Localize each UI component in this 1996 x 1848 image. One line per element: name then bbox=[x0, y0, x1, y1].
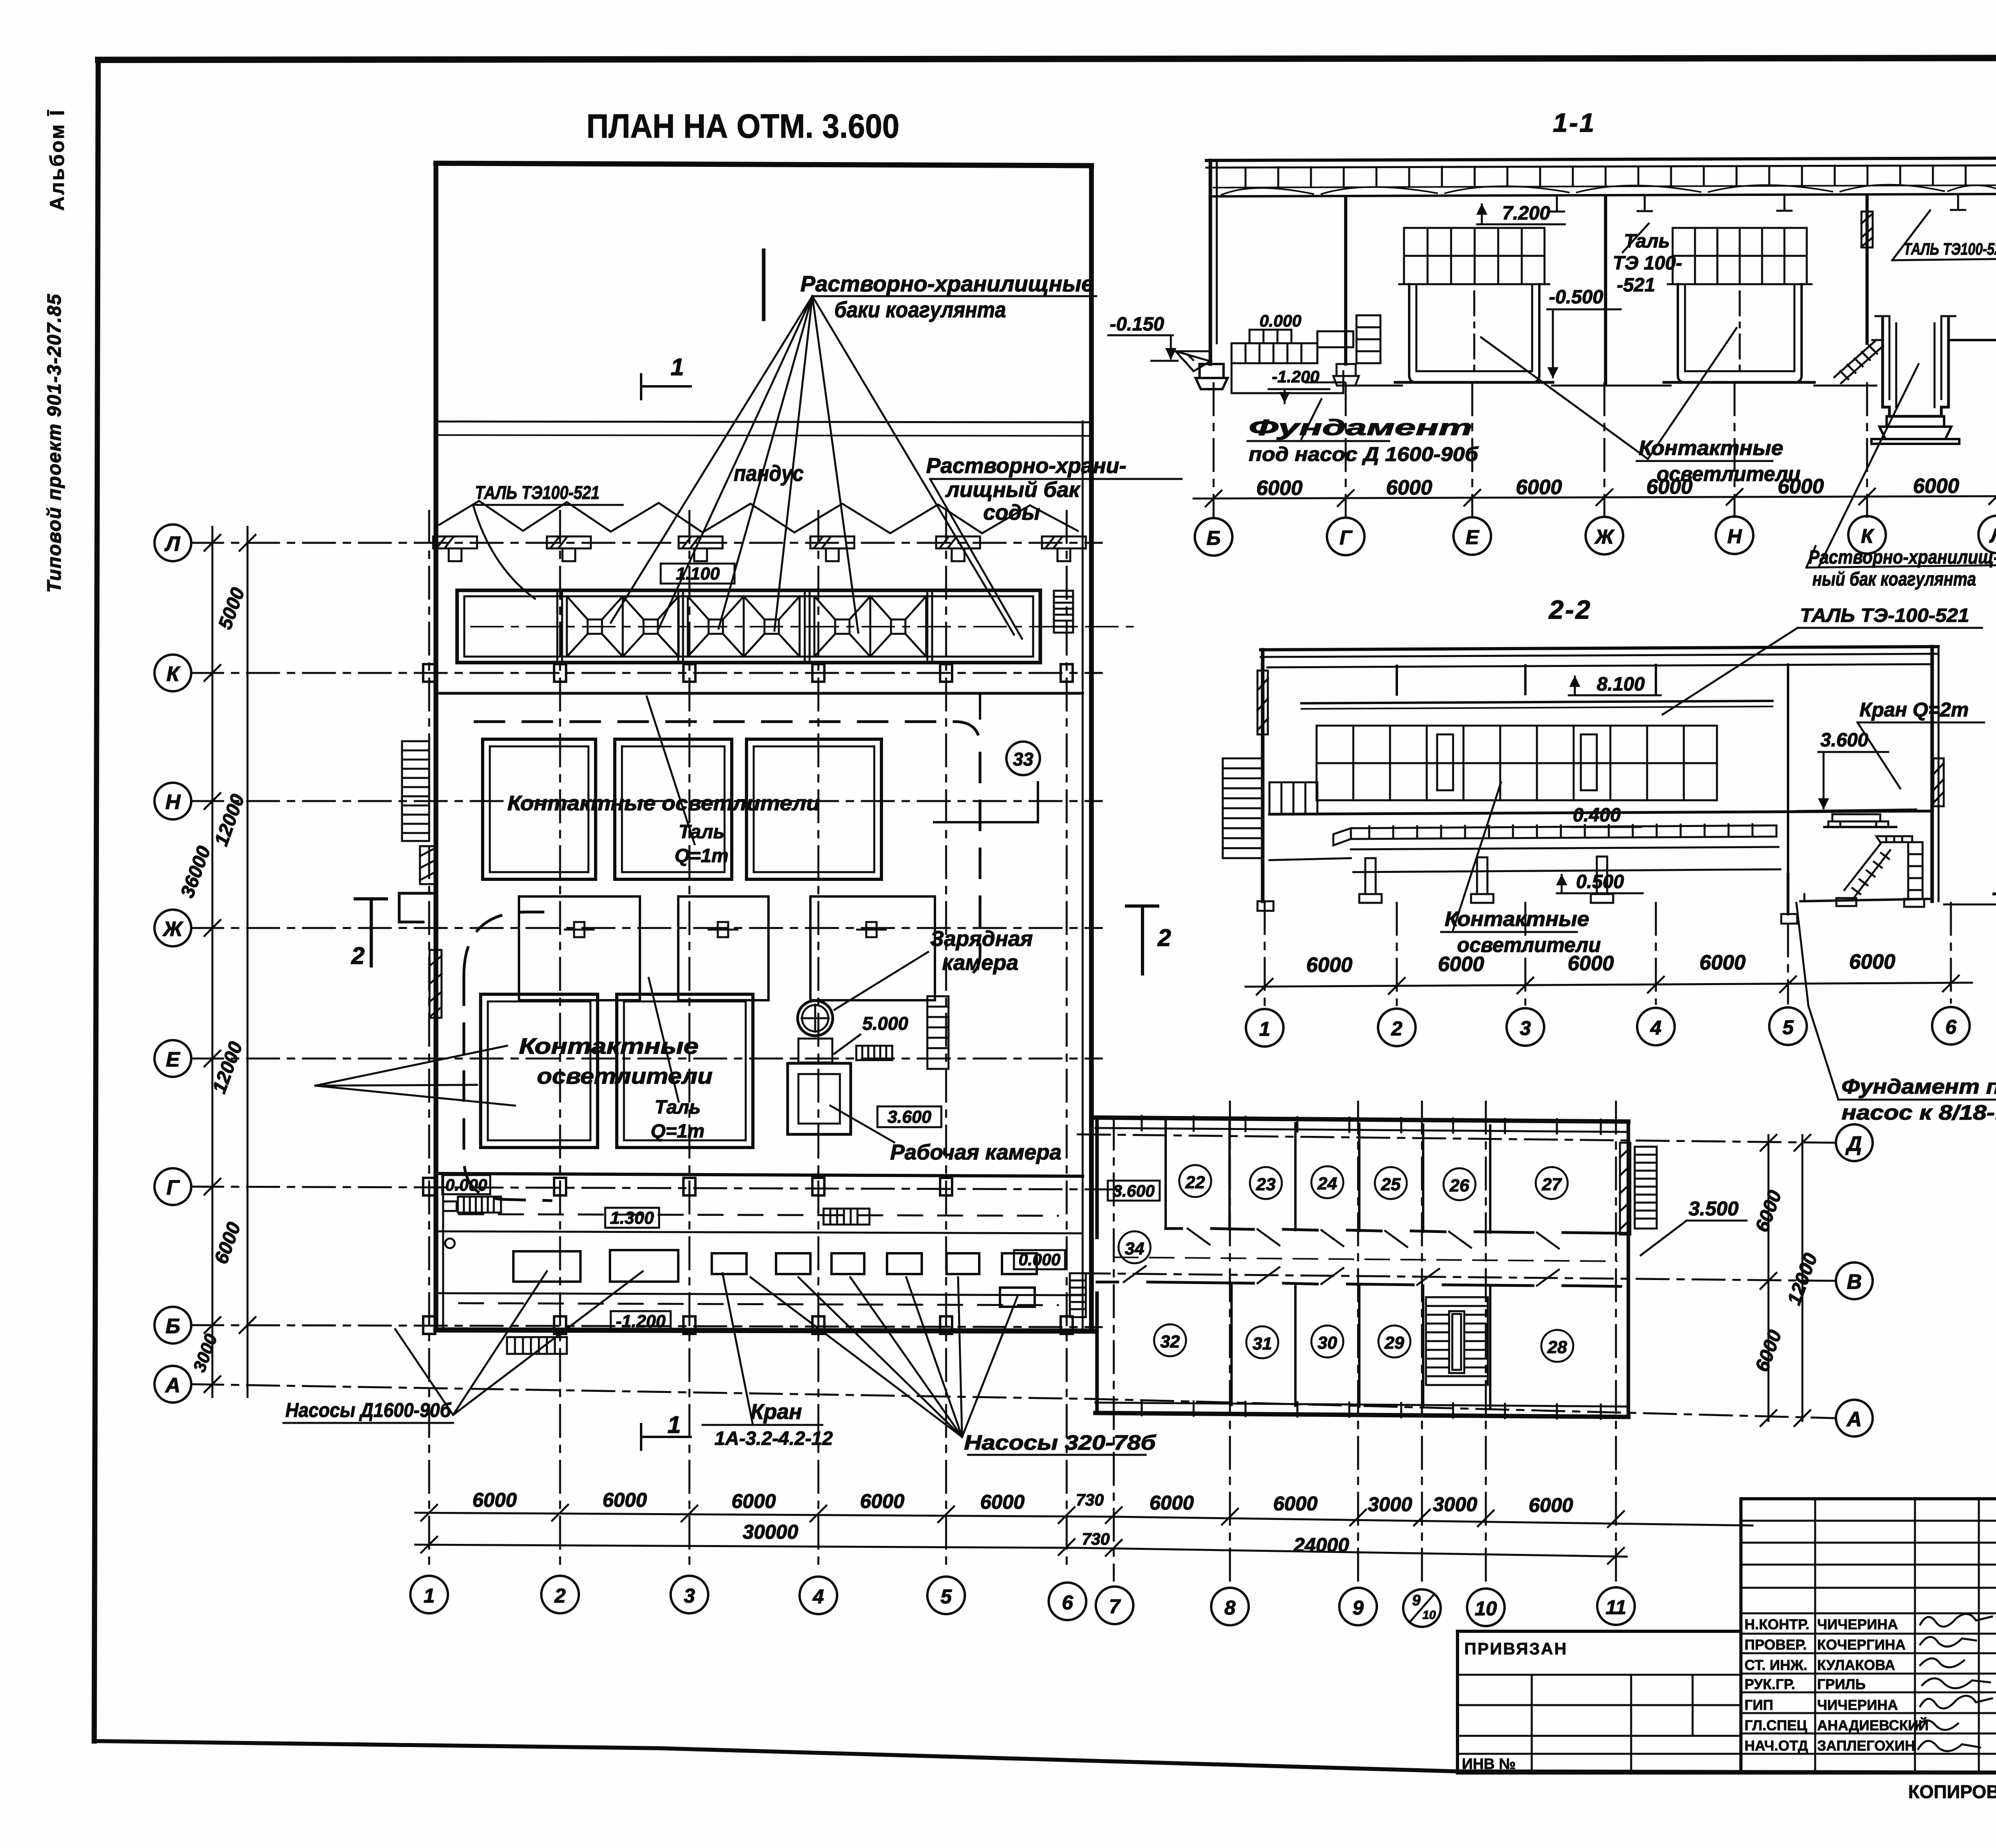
pump hall left wall inner bbox=[442, 1173, 444, 1330]
section 2-2 axis circle 1 bbox=[1246, 1009, 1283, 1047]
partitions top row rooms 22-27 bbox=[1166, 1122, 1490, 1233]
section 1-1 axis circle Б bbox=[1195, 518, 1232, 556]
svg-text:5: 5 bbox=[941, 1585, 952, 1608]
annex left wall bbox=[1095, 1118, 1099, 1237]
svg-text:10: 10 bbox=[1422, 1609, 1436, 1622]
svg-text:5: 5 bbox=[1782, 1016, 1794, 1039]
svg-text:2: 2 bbox=[1391, 1017, 1402, 1040]
svg-text:Фундамент под: Фундамент под bbox=[1842, 1075, 1996, 1098]
dim line 2-2 bbox=[1246, 983, 1972, 987]
svg-text:насос к 8/18-У2: насос к 8/18-У2 bbox=[1842, 1101, 1996, 1124]
walkway band bbox=[1333, 824, 1778, 849]
axis Н line bbox=[191, 800, 1102, 802]
svg-text:34: 34 bbox=[1125, 1239, 1145, 1258]
svg-text:К: К bbox=[1861, 525, 1875, 547]
column К hatched bbox=[1865, 195, 1869, 343]
axis circle К bbox=[154, 655, 191, 691]
svg-text:КОПИРОВАЛ: Коршунова: КОПИРОВАЛ: Коршунова bbox=[1908, 1781, 1996, 1802]
interior columns 2-2 bbox=[1397, 665, 1788, 874]
leader fan to tanks bbox=[611, 296, 1014, 635]
dashed crane rail loop bbox=[475, 722, 980, 977]
annex bottom wall bbox=[1095, 1413, 1628, 1417]
0.000 boxed left bbox=[442, 1175, 490, 1194]
leader fan to lower tanks bbox=[315, 1046, 515, 1106]
section 2-2 axis circle 3 bbox=[1507, 1008, 1544, 1046]
svg-text:7: 7 bbox=[1109, 1595, 1121, 1618]
svg-text:6000: 6000 bbox=[1913, 475, 1959, 498]
axis circle А right bbox=[1836, 1400, 1873, 1436]
svg-text:730: 730 bbox=[1076, 1490, 1104, 1509]
svg-text:8: 8 bbox=[1224, 1597, 1236, 1619]
left wall 2-2 hatched bbox=[1261, 650, 1265, 901]
svg-text:0.000: 0.000 bbox=[445, 1175, 487, 1194]
tank row centerline bbox=[471, 626, 1138, 627]
stairs К axis bbox=[1834, 340, 1883, 383]
signature table bbox=[1741, 1499, 1996, 1773]
svg-text:1-1: 1-1 bbox=[1553, 108, 1596, 137]
привязан box bbox=[1457, 1631, 1741, 1773]
svg-text:Б: Б bbox=[1206, 527, 1220, 549]
svg-text:ЧИЧЕРИНА: ЧИЧЕРИНА bbox=[1817, 1616, 1898, 1632]
svg-text:Контактные: Контактные bbox=[519, 1033, 699, 1059]
hatched wall stub below stair bbox=[420, 846, 435, 884]
window ticks bottom wall bbox=[1142, 1401, 1601, 1419]
annex top wall bbox=[1095, 1118, 1628, 1122]
svg-text:24000: 24000 bbox=[1293, 1534, 1349, 1556]
dim line section 1-1 bbox=[1194, 496, 1996, 499]
svg-text:Н: Н bbox=[165, 791, 181, 814]
svg-text:3000: 3000 bbox=[1368, 1493, 1412, 1516]
bottom right pit 2-2 bbox=[1781, 874, 1932, 924]
3.600 slab line bbox=[1269, 811, 1932, 814]
svg-text:КОЧЕРГИНА: КОЧЕРГИНА bbox=[1817, 1636, 1906, 1653]
section 1-1 axis circle Г bbox=[1327, 518, 1364, 555]
svg-text:Таль: Таль bbox=[1624, 231, 1670, 252]
section 1-1 axis circle Е bbox=[1453, 517, 1491, 555]
svg-text:32: 32 bbox=[1160, 1332, 1180, 1351]
plan bottom wall bbox=[436, 1330, 1094, 1331]
svg-text:6000: 6000 bbox=[602, 1489, 647, 1511]
svg-text:6000: 6000 bbox=[860, 1490, 904, 1512]
plan left wall bbox=[434, 163, 438, 1330]
svg-text:0.500: 0.500 bbox=[1576, 871, 1624, 892]
floor line segments 1-1 bbox=[1343, 385, 1876, 387]
left stair tower 2-2 bbox=[1223, 758, 1317, 858]
signature rows text bbox=[1745, 1616, 1929, 1754]
svg-text:ТЭ 100-: ТЭ 100- bbox=[1613, 253, 1682, 274]
vertical axis lines 1-6 bbox=[429, 511, 1616, 1587]
axis circle Ж bbox=[154, 910, 191, 946]
lower big tank 2 bbox=[617, 994, 753, 1148]
section 1-1 axis circle Л bbox=[1978, 516, 1996, 553]
svg-text:4: 4 bbox=[1650, 1017, 1661, 1039]
section mark 2 left bbox=[355, 899, 386, 966]
svg-text:3.600: 3.600 bbox=[1820, 730, 1868, 751]
room circle 25 bbox=[1375, 1167, 1407, 1199]
lower big tank 1 bbox=[481, 994, 598, 1148]
svg-text:В: В bbox=[1847, 1270, 1862, 1294]
svg-text:ГРИЛЬ: ГРИЛЬ bbox=[1817, 1676, 1865, 1692]
coagulant tank right bbox=[1875, 316, 1955, 416]
svg-text:Л: Л bbox=[164, 532, 180, 556]
bottom axis circle 9/10 bbox=[1403, 1589, 1441, 1627]
tank 1 grid top bbox=[1404, 228, 1545, 284]
pump pit 2 bbox=[610, 1250, 678, 1282]
svg-text:2: 2 bbox=[351, 942, 364, 969]
roof panel ticks bbox=[1246, 165, 1996, 187]
small pump rects bbox=[712, 1253, 1037, 1307]
bottom axis circle 9 bbox=[1339, 1588, 1377, 1625]
svg-text:6000: 6000 bbox=[1273, 1492, 1317, 1515]
axis Л line bbox=[191, 542, 1102, 544]
svg-text:6000: 6000 bbox=[1256, 477, 1303, 500]
window ticks top wall bbox=[1142, 1116, 1601, 1134]
svg-text:пандус: пандус bbox=[734, 461, 804, 486]
axis Ж line bbox=[191, 927, 1102, 929]
columns feet 2-2 bbox=[1257, 857, 1613, 911]
plan right wall bbox=[1089, 166, 1094, 1331]
svg-text:27: 27 bbox=[1542, 1175, 1562, 1194]
svg-text:2: 2 bbox=[554, 1585, 566, 1607]
room circle 32 bbox=[1154, 1324, 1186, 1356]
svg-text:31: 31 bbox=[1253, 1334, 1272, 1353]
svg-text:30: 30 bbox=[1318, 1333, 1337, 1353]
svg-text:Кран Q=2т: Кран Q=2т bbox=[1859, 698, 1969, 721]
crane trolley 2-2 bbox=[1796, 809, 1916, 827]
bottom axis circle 1 bbox=[410, 1576, 448, 1613]
svg-text:ГИП: ГИП bbox=[1745, 1697, 1773, 1713]
svg-text:-1.200: -1.200 bbox=[616, 1312, 666, 1331]
svg-text:НАЧ.ОТД: НАЧ.ОТД bbox=[1745, 1737, 1808, 1754]
svg-text:6: 6 bbox=[1945, 1016, 1957, 1038]
axis Д line bbox=[1078, 1134, 1835, 1143]
svg-text:ТАЛЬ ТЭ100-521: ТАЛЬ ТЭ100-521 bbox=[1903, 239, 1996, 258]
svg-text:6000: 6000 bbox=[1568, 952, 1614, 975]
leader from Таль label to box bbox=[647, 696, 695, 844]
section 1-1 axis circle Ж bbox=[1586, 517, 1623, 554]
svg-text:3: 3 bbox=[684, 1585, 695, 1607]
tank 2 grid top bbox=[1673, 228, 1807, 284]
svg-text:Н.КОНТР.: Н.КОНТР. bbox=[1745, 1616, 1810, 1632]
svg-text:КУЛАКОВА: КУЛАКОВА bbox=[1817, 1657, 1895, 1673]
small box below circle bbox=[798, 1039, 832, 1063]
svg-text:Б: Б bbox=[166, 1315, 180, 1338]
svg-text:Q=1m: Q=1m bbox=[651, 1121, 705, 1142]
svg-text:Д: Д bbox=[1845, 1132, 1862, 1155]
1.300 boxed bbox=[605, 1208, 659, 1228]
svg-text:Фундамент: Фундамент bbox=[1249, 415, 1472, 440]
ladder right of working chamber bbox=[927, 996, 948, 1069]
ground line left stub bbox=[1170, 351, 1210, 371]
lower middle boxes row bbox=[519, 896, 935, 1000]
left column footing bbox=[1196, 364, 1228, 389]
svg-text:6000: 6000 bbox=[1149, 1492, 1194, 1514]
axis circle Л bbox=[154, 524, 191, 561]
contact clarifier box 1 bbox=[483, 739, 596, 879]
svg-text:1: 1 bbox=[1259, 1018, 1270, 1040]
room 33 circle bbox=[1006, 742, 1040, 775]
svg-text:Насосы 320-78б: Насосы 320-78б bbox=[964, 1431, 1156, 1454]
svg-text:Е: Е bbox=[1465, 526, 1479, 548]
plan right wall inner line bbox=[1082, 421, 1084, 1331]
room circle 28 bbox=[1541, 1330, 1573, 1362]
column marks on Б axis bbox=[423, 1316, 1073, 1334]
svg-text:24: 24 bbox=[1317, 1174, 1337, 1193]
svg-text:30000: 30000 bbox=[743, 1521, 798, 1543]
svg-text:под насос Д 1600-90б: под насос Д 1600-90б bbox=[1249, 443, 1479, 465]
hatched wall right top bbox=[1620, 1143, 1630, 1235]
svg-text:22: 22 bbox=[1185, 1173, 1205, 1192]
left pump foundation steps bbox=[1232, 315, 1380, 363]
plan outer top wall bbox=[436, 163, 1091, 166]
svg-text:1: 1 bbox=[671, 354, 684, 380]
left vertical dim line 2 bbox=[247, 527, 249, 1397]
upper hall north wall bbox=[436, 692, 1083, 695]
axis circle В bbox=[1836, 1262, 1873, 1299]
section 1-1 axis circle К bbox=[1848, 516, 1886, 554]
bottom axis circle 5 bbox=[927, 1577, 965, 1614]
bottom axis circle 6 bbox=[1049, 1583, 1086, 1620]
section mark 2 right bbox=[1127, 906, 1158, 974]
room circle 26 bbox=[1444, 1168, 1475, 1200]
room circle 30 bbox=[1311, 1326, 1343, 1357]
right vertical dim line 2 bbox=[1802, 1135, 1804, 1421]
bottom dim ticks bbox=[421, 1505, 1624, 1527]
column Г bbox=[1344, 196, 1347, 364]
roof 2-2 bbox=[1261, 647, 1938, 650]
right wall 2-2 bbox=[1931, 647, 1934, 901]
svg-text:ПРОВЕР.: ПРОВЕР. bbox=[1745, 1636, 1807, 1653]
pump hall band lines bbox=[439, 1231, 1083, 1233]
monorail beams bbox=[1550, 196, 1965, 212]
svg-text:0.000: 0.000 bbox=[1259, 311, 1301, 330]
svg-text:6000: 6000 bbox=[1699, 951, 1746, 974]
small hatch ladder left of chamber bbox=[856, 1046, 892, 1060]
svg-text:ЧИЧЕРИНА: ЧИЧЕРИНА bbox=[1817, 1697, 1898, 1713]
axis Б line bbox=[191, 1325, 1102, 1327]
column marks on К axis bbox=[423, 664, 1073, 682]
room circle 34 bbox=[1119, 1231, 1150, 1263]
left column Б bbox=[1209, 160, 1212, 364]
platform 1.100 bbox=[1948, 339, 1996, 341]
annex right wall bbox=[1627, 1122, 1630, 1417]
corridor upper wall bbox=[1166, 1229, 1628, 1233]
svg-text:ИНВ №: ИНВ № bbox=[1462, 1756, 1516, 1773]
roof top chord bbox=[1206, 158, 1996, 160]
-1.200 boxed bbox=[611, 1311, 671, 1331]
partition near 33 bbox=[934, 693, 1038, 822]
svg-text:3000: 3000 bbox=[1433, 1493, 1477, 1516]
svg-text:соды: соды bbox=[983, 501, 1040, 524]
svg-text:- 2.40: - 2.40 bbox=[1992, 882, 1996, 903]
tank 2 body bbox=[1664, 284, 1814, 382]
svg-text:Типовой проект 901-3-207.85: Типовой проект 901-3-207.85 bbox=[44, 293, 65, 593]
svg-text:6000: 6000 bbox=[1849, 950, 1895, 973]
bottom axis circle 8 bbox=[1211, 1588, 1249, 1625]
svg-text:7.200: 7.200 bbox=[1502, 203, 1550, 224]
svg-text:10: 10 bbox=[1475, 1597, 1497, 1620]
svg-text:Кран: Кран bbox=[750, 1400, 802, 1424]
svg-text:лищный бак: лищный бак bbox=[945, 478, 1081, 502]
room circle 23 bbox=[1250, 1167, 1282, 1199]
svg-text:СТ. ИНЖ.: СТ. ИНЖ. bbox=[1745, 1657, 1807, 1673]
zigzag break line over tanks bbox=[439, 501, 1078, 533]
axis К line bbox=[191, 672, 1102, 674]
svg-text:8.100: 8.100 bbox=[1597, 674, 1645, 695]
фундамент small rect left of hall bbox=[443, 1201, 457, 1248]
svg-text:6000: 6000 bbox=[1386, 476, 1432, 499]
axis circle Г bbox=[154, 1168, 191, 1205]
svg-text:Q=1т: Q=1т bbox=[675, 845, 729, 867]
svg-text:Таль: Таль bbox=[679, 821, 725, 843]
section mark 1 top bbox=[762, 250, 766, 319]
svg-text:ный бак коагулянта: ный бак коагулянта bbox=[1812, 569, 1976, 590]
section 2-2 axis circle 6 bbox=[1932, 1007, 1970, 1045]
svg-text:3.600: 3.600 bbox=[1113, 1181, 1154, 1200]
exterior stair right bbox=[1635, 1147, 1657, 1229]
solution-storage tank row outer bbox=[457, 590, 1040, 663]
axis circle Д bbox=[1836, 1124, 1873, 1161]
working chamber box bbox=[788, 1063, 851, 1134]
bottom axis circle 2 bbox=[541, 1576, 579, 1613]
crane rails dashed bbox=[459, 1214, 1058, 1216]
lower floor line 2-2 bbox=[1269, 858, 1351, 860]
svg-text:11: 11 bbox=[1606, 1596, 1626, 1618]
svg-text:2-2: 2-2 bbox=[1548, 595, 1592, 624]
svg-text:Растворно-храни-: Растворно-храни- bbox=[926, 454, 1127, 478]
svg-text:33: 33 bbox=[1013, 749, 1034, 770]
section 2-2 axis circle 5 bbox=[1769, 1007, 1807, 1045]
svg-text:Насосы Д1600-90б: Насосы Д1600-90б bbox=[285, 1399, 452, 1421]
svg-text:9: 9 bbox=[1412, 1592, 1420, 1609]
svg-text:ЗАПЛЕГОХИН: ЗАПЛЕГОХИН bbox=[1817, 1737, 1915, 1754]
axis Г line bbox=[191, 1187, 1118, 1189]
axis stubs vertical bbox=[1214, 383, 1996, 517]
svg-text:Е: Е bbox=[166, 1048, 180, 1071]
axis circle А bbox=[154, 1366, 191, 1403]
svg-text:-0.150: -0.150 bbox=[1110, 314, 1164, 335]
svg-text:Альбом Ī: Альбом Ī bbox=[46, 109, 68, 211]
svg-text:Л: Л bbox=[1989, 524, 1996, 547]
pump pit 1 bbox=[513, 1251, 580, 1282]
svg-text:А: А bbox=[1846, 1408, 1862, 1431]
axis А line bbox=[191, 1384, 1835, 1418]
svg-text:баки коагулянта: баки коагулянта bbox=[834, 297, 1006, 322]
axis circle Н bbox=[154, 783, 191, 819]
wall step left bbox=[399, 893, 436, 922]
svg-text:6000: 6000 bbox=[980, 1491, 1024, 1513]
svg-text:-521: -521 bbox=[1617, 275, 1655, 296]
ladder grids pump hall bbox=[458, 1197, 1086, 1354]
svg-text:5.000: 5.000 bbox=[862, 1013, 909, 1034]
right vertical dim line 1 bbox=[1768, 1135, 1770, 1421]
corridor lower wall bbox=[1097, 1282, 1621, 1286]
bottom axis circle 4 bbox=[800, 1577, 837, 1614]
tank 1 body bbox=[1395, 284, 1553, 382]
axis circle Б bbox=[154, 1307, 191, 1343]
dim labels 6000 row bbox=[472, 1489, 1573, 1516]
tank compartment dividers bbox=[557, 590, 932, 663]
dim ticks left bbox=[204, 535, 255, 1392]
stairwell annex bbox=[1426, 1297, 1488, 1385]
room circle 31 bbox=[1246, 1326, 1278, 1358]
coagulant tank pedestal bbox=[1871, 416, 1959, 444]
svg-text:3.600: 3.600 bbox=[887, 1107, 932, 1127]
window grid band bbox=[1317, 726, 1717, 800]
partitions bottom row rooms 32-28 bbox=[1232, 1283, 1490, 1408]
section mark 1 flag bbox=[641, 374, 691, 399]
svg-text:Г: Г bbox=[166, 1176, 180, 1199]
svg-text:камера: камера bbox=[942, 951, 1018, 975]
svg-text:Ж: Ж bbox=[162, 918, 184, 941]
svg-text:ТАЛЬ ТЭ100-521: ТАЛЬ ТЭ100-521 bbox=[475, 482, 600, 503]
svg-text:28: 28 bbox=[1547, 1338, 1567, 1357]
svg-text:2: 2 bbox=[1157, 924, 1171, 951]
svg-text:А: А bbox=[164, 1374, 180, 1397]
svg-text:осветлители: осветлители bbox=[537, 1063, 713, 1088]
svg-text:9: 9 bbox=[1352, 1597, 1364, 1619]
svg-text:1А-3.2-4.2-12: 1А-3.2-4.2-12 bbox=[715, 1428, 833, 1449]
axis stubs 2-2 bbox=[1265, 902, 1951, 1006]
svg-text:3: 3 bbox=[1520, 1017, 1531, 1039]
section 2-2 axis circle 4 bbox=[1637, 1008, 1675, 1045]
svg-text:23: 23 bbox=[1256, 1175, 1276, 1194]
bottom axis circle 11 bbox=[1597, 1587, 1635, 1625]
axis circle Е bbox=[154, 1040, 191, 1077]
axis Е line bbox=[191, 1058, 1102, 1060]
svg-text:Контактные осветлители: Контактные осветлители bbox=[507, 792, 820, 815]
svg-text:1: 1 bbox=[667, 1411, 681, 1438]
roof bottom chord bbox=[1214, 194, 1996, 196]
upper-left outdoor stair bbox=[402, 741, 429, 841]
axis В line bbox=[1078, 1273, 1835, 1281]
svg-text:1: 1 bbox=[424, 1585, 435, 1607]
section 1-1 axis circle Н bbox=[1716, 516, 1753, 554]
svg-text:6000: 6000 bbox=[472, 1489, 517, 1511]
svg-text:1.300: 1.300 bbox=[610, 1208, 654, 1228]
svg-text:25: 25 bbox=[1381, 1175, 1401, 1194]
svg-text:Контактные: Контактные bbox=[1445, 908, 1589, 931]
svg-text:4: 4 bbox=[812, 1585, 824, 1608]
ladder top right bbox=[1054, 591, 1073, 633]
corridor center dashline bbox=[1114, 1257, 1617, 1261]
svg-text:ГЛ.СПЕЦ: ГЛ.СПЕЦ bbox=[1745, 1717, 1808, 1733]
left vertical dim line 1 bbox=[212, 527, 214, 1397]
svg-text:6000: 6000 bbox=[1646, 475, 1693, 499]
column Ж bbox=[1604, 196, 1607, 383]
svg-text:Зарядная: Зарядная bbox=[930, 927, 1033, 951]
svg-text:Г: Г bbox=[1340, 526, 1353, 549]
svg-text:29: 29 bbox=[1384, 1333, 1404, 1353]
envelope tanks with hopper diagonals bbox=[567, 596, 926, 657]
basement pit left bbox=[1232, 363, 1345, 393]
leader fan Насосы Д1600-90б bbox=[395, 1271, 643, 1415]
svg-text:26: 26 bbox=[1449, 1176, 1469, 1195]
svg-text:ПЛАН НА ОТМ. 3.600: ПЛАН НА ОТМ. 3.600 bbox=[586, 107, 899, 145]
svg-text:-0.500: -0.500 bbox=[1549, 287, 1603, 308]
svg-text:730: 730 bbox=[1082, 1529, 1110, 1548]
svg-text:РУК.ГР.: РУК.ГР. bbox=[1745, 1676, 1795, 1692]
svg-text:К: К bbox=[166, 663, 180, 686]
svg-text:-1.200: -1.200 bbox=[1272, 367, 1319, 386]
svg-text:Рабочая камера: Рабочая камера bbox=[890, 1140, 1061, 1164]
bottom dim line 1 bbox=[415, 1513, 1752, 1525]
svg-text:6000: 6000 bbox=[731, 1490, 776, 1512]
svg-text:6000: 6000 bbox=[1516, 476, 1562, 499]
hatched pier mid-left bbox=[430, 950, 442, 1018]
3.600 boxed bbox=[877, 1106, 941, 1127]
svg-text:6: 6 bbox=[1062, 1591, 1073, 1614]
